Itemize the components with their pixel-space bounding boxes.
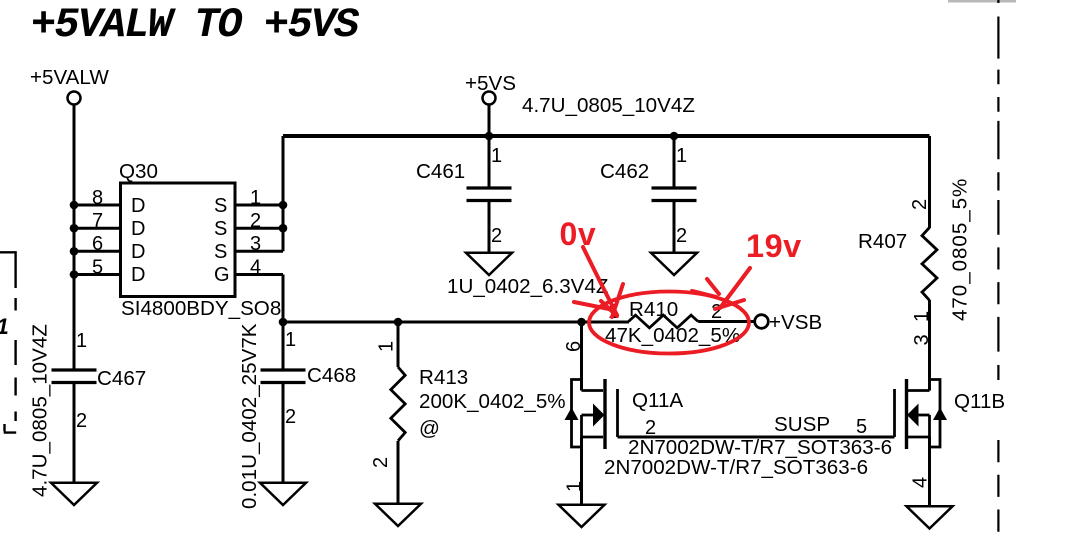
- svg-text:4.7U_0805_10V4Z: 4.7U_0805_10V4Z: [29, 324, 52, 497]
- svg-text:1: 1: [491, 145, 502, 167]
- svg-text:1U_0402_6.3V4Z: 1U_0402_6.3V4Z: [447, 275, 608, 298]
- pin number 2 C467: [76, 410, 87, 432]
- svg-text:+5VALW TO +5VS: +5VALW TO +5VS: [31, 1, 359, 49]
- svg-text:@: @: [419, 417, 440, 440]
- annotation arrow 19v barb: [715, 300, 744, 309]
- pin number 1 C461: [491, 145, 502, 167]
- pin number 5 Q11B gate: [856, 416, 867, 438]
- annotation arrow 0v shaft: [583, 247, 617, 315]
- terminal +5VALW: [68, 92, 81, 105]
- svg-text:2N7002DW-T/R7_SOT363-6: 2N7002DW-T/R7_SOT363-6: [604, 456, 868, 479]
- pin number 2 R410: [711, 301, 722, 323]
- pin name D (pin 6): [131, 241, 145, 263]
- svg-text:Q11A: Q11A: [632, 389, 683, 412]
- junction dot pin 1: [279, 201, 288, 210]
- wire Q11B source to ground: [928, 437, 931, 506]
- refdes Q11A: [632, 389, 683, 412]
- pin number 4 Q11B source (rotated): [910, 477, 932, 488]
- annotation 19v cross stroke: [707, 279, 719, 294]
- pin number 2: [250, 210, 261, 232]
- refdes R410: [629, 298, 678, 321]
- value label 1U_0402_6.3V4Z (C462): [447, 275, 608, 298]
- terminal +5VS: [483, 92, 496, 105]
- svg-text:7: 7: [92, 210, 103, 232]
- wire Q11A source to ground: [580, 437, 583, 504]
- pin name D (pin 8): [131, 195, 145, 217]
- svg-text:C461: C461: [416, 160, 465, 183]
- svg-text:C468: C468: [307, 364, 356, 387]
- svg-text:1: 1: [376, 341, 398, 352]
- svg-text:D: D: [131, 264, 145, 286]
- pin number 5: [92, 257, 103, 279]
- capacitor C461: [467, 136, 512, 252]
- junction dot pin 6: [70, 247, 79, 256]
- wire R410 to +VSB: [698, 320, 754, 323]
- wire +5VS bus horizontal: [283, 134, 930, 138]
- pin name D (pin 5): [131, 264, 145, 286]
- svg-text:2: 2: [76, 410, 87, 432]
- svg-text:6: 6: [563, 341, 585, 352]
- annotation arrow 0v barb left: [601, 301, 617, 316]
- annotation 0v text: [560, 216, 597, 252]
- svg-text:2: 2: [285, 406, 296, 428]
- refdes Q11B: [954, 390, 1005, 413]
- svg-text:SUSP: SUSP: [774, 413, 830, 436]
- transistor Q11B (2N7002DW half B): [895, 379, 948, 449]
- wire R407 to Q11B drain: [928, 300, 931, 391]
- capacitor C468: [261, 370, 306, 482]
- svg-text:2: 2: [491, 225, 502, 247]
- svg-text:+VSB: +VSB: [769, 311, 822, 334]
- annotation arrow 0v barb right: [612, 284, 623, 317]
- pin number 2 C462: [676, 225, 687, 247]
- svg-text:2: 2: [909, 199, 931, 210]
- wire vertical S-pins to +5VS bus: [282, 136, 285, 251]
- wire Q30 pin 2: [235, 227, 283, 230]
- svg-text:C462: C462: [600, 160, 649, 183]
- junction dot gate net at C468: [279, 318, 288, 327]
- junction dot bus at C462: [670, 132, 679, 141]
- value label 0.01U_0402_25V7K (rotated): [238, 323, 261, 509]
- ground C467: [51, 483, 97, 505]
- pin number 3: [250, 233, 261, 255]
- svg-text:5: 5: [856, 416, 867, 438]
- wire vertical G pin down to gate net: [282, 275, 285, 323]
- wire Q30 pin 7: [74, 227, 120, 230]
- wire Q30 pin 6: [74, 250, 120, 253]
- svg-text:0v: 0v: [560, 216, 597, 252]
- svg-text:C467: C467: [97, 367, 146, 390]
- svg-text:+5VALW: +5VALW: [30, 66, 109, 89]
- ground C462: [651, 253, 697, 275]
- refdes R413: [419, 366, 468, 389]
- pin name S (pin 1): [214, 195, 227, 217]
- junction dot pin 8: [70, 201, 79, 210]
- frame gray tick top right: [948, 0, 1016, 3]
- title +5VALW TO +5VS: [31, 1, 359, 49]
- svg-text:R413: R413: [419, 366, 468, 389]
- wire R413 bottom: [397, 441, 400, 503]
- value label 47K_0402_5%: [605, 324, 740, 347]
- transistor Q30 body SI4800BDY_SO8: [121, 183, 236, 297]
- resistor R407: [922, 228, 937, 301]
- svg-text:8: 8: [92, 187, 103, 209]
- wire Q30 pin 3: [235, 250, 283, 253]
- pin name S (pin 3): [214, 241, 227, 263]
- svg-text:1: 1: [564, 481, 586, 492]
- svg-text:D: D: [131, 195, 145, 217]
- pin number 3 Q11B drain (rotated): [911, 334, 933, 345]
- part value 2N7002DW-T/R7_SOT363-6 (Q11A): [628, 436, 892, 459]
- svg-text:47K_0402_5%: 47K_0402_5%: [605, 324, 740, 347]
- pin number 1: [250, 187, 261, 209]
- junction dot bus at +5VS: [485, 132, 494, 141]
- pin number 2 C468: [285, 406, 296, 428]
- wire gate net horizontal (Q30.G / R413 / C468 / R410.1 / Q11A drain): [283, 321, 629, 324]
- pin number 8: [92, 187, 103, 209]
- wire +5VALW vertical to C467: [73, 105, 76, 369]
- svg-text:470_0805_5%: 470_0805_5%: [949, 178, 972, 321]
- refdes C468: [307, 364, 356, 387]
- pin number 6: [92, 233, 103, 255]
- svg-text:D: D: [131, 241, 145, 263]
- svg-text:200K_0402_5%: 200K_0402_5%: [419, 390, 566, 413]
- ground R413: [375, 504, 421, 526]
- value label 4.7U_0805_10V4Z (C467, rotated): [29, 324, 52, 497]
- pin name G (pin 4): [214, 264, 230, 286]
- svg-text:1: 1: [0, 314, 9, 339]
- transistor Q11A (2N7002DW half A): [565, 379, 618, 449]
- wire SUSP gate net: [618, 436, 895, 439]
- value label 200K_0402_5%: [419, 390, 566, 413]
- svg-text:G: G: [214, 264, 230, 286]
- pin number 1 C467: [76, 330, 87, 352]
- svg-text:4.7U_0805_10V4Z: 4.7U_0805_10V4Z: [522, 94, 695, 117]
- ground Q11A: [559, 505, 605, 527]
- svg-text:SI4800BDY_SO8: SI4800BDY_SO8: [121, 297, 281, 320]
- net label SUSP: [774, 413, 830, 436]
- pin number 1 R407 (rotated): [911, 311, 933, 322]
- svg-text:S: S: [214, 241, 227, 263]
- value label 470_0805_5% (rotated): [949, 178, 972, 321]
- ground C468: [260, 483, 306, 505]
- junction dot pin 7: [70, 224, 79, 233]
- wire R413 top: [397, 322, 400, 367]
- junction dot pin 5: [70, 270, 79, 279]
- pin number 2 C461: [491, 225, 502, 247]
- part value 2N7002DW-T/R7_SOT363-6 (Q11B): [604, 456, 868, 479]
- svg-text:0.01U_0402_25V7K: 0.01U_0402_25V7K: [238, 323, 261, 509]
- pin number 1 R410: [608, 301, 619, 323]
- pin number 1 Q11A source (rotated): [564, 481, 586, 492]
- refdes C467: [97, 367, 146, 390]
- annotation 0v cross stroke: [574, 302, 614, 310]
- wire bus right corner down to R407: [928, 136, 931, 228]
- wire C468 top: [282, 322, 285, 369]
- svg-text:3: 3: [911, 334, 933, 345]
- svg-text:Q11B: Q11B: [954, 390, 1005, 413]
- junction dot pin 2: [279, 224, 288, 233]
- pin number 2 R413 (rotated): [370, 457, 392, 468]
- value label @: [419, 417, 440, 440]
- svg-text:1: 1: [76, 330, 87, 352]
- svg-text:D: D: [131, 218, 145, 240]
- part value SI4800BDY_SO8: [121, 297, 281, 320]
- node +5VALW label: [30, 66, 109, 89]
- svg-text:2: 2: [370, 457, 392, 468]
- terminal +VSB: [755, 315, 769, 329]
- annotation red ellipse around R410: [589, 292, 749, 354]
- capacitor C467: [52, 369, 97, 483]
- pin number 4: [250, 257, 261, 279]
- zone label 1: [0, 314, 9, 339]
- wire Q30 pin 1: [235, 204, 283, 207]
- pin number 1 R413 (rotated): [376, 341, 398, 352]
- refdes Q30: [119, 160, 158, 183]
- svg-text:1: 1: [676, 145, 687, 167]
- ground Q11B: [907, 506, 953, 528]
- svg-text:5: 5: [92, 257, 103, 279]
- ground C461: [466, 253, 512, 275]
- svg-text:4: 4: [910, 477, 932, 488]
- refdes C461: [416, 160, 465, 183]
- junction dot gate net at R413: [394, 318, 403, 327]
- pin number 1 C462: [676, 145, 687, 167]
- frame zone corner left: [0, 252, 16, 432]
- annotation 19v text: [746, 228, 802, 264]
- svg-text:S: S: [214, 195, 227, 217]
- svg-text:Q30: Q30: [119, 160, 158, 183]
- refdes R407: [858, 230, 907, 253]
- node +VSB label: [769, 311, 822, 334]
- wire Q30 pin 4: [235, 273, 283, 276]
- pin number 6 Q11A drain (rotated): [563, 341, 585, 352]
- resistor R413: [391, 367, 405, 441]
- wire Q11A drain vertical: [580, 322, 583, 391]
- frame dashed right border: [997, 0, 999, 532]
- pin name D (pin 7): [131, 218, 145, 240]
- svg-text:6: 6: [92, 233, 103, 255]
- wire +5VS drop to bus: [488, 105, 491, 137]
- junction dot gate net at Q11A drain: [577, 318, 586, 327]
- pin number 2 R407 (rotated): [909, 199, 931, 210]
- refdes C462: [600, 160, 649, 183]
- pin number 1 C468: [285, 329, 296, 351]
- wire Q30 pin 5: [74, 273, 120, 276]
- value label 4.7U_0805_10V4Z (C461): [522, 94, 695, 117]
- wire Q30 pin 8: [74, 204, 120, 207]
- pin number 2 Q11A gate: [645, 417, 656, 439]
- svg-text:2: 2: [676, 225, 687, 247]
- pin number 7: [92, 210, 103, 232]
- svg-text:S: S: [214, 218, 227, 240]
- pin name S (pin 2): [214, 218, 227, 240]
- svg-text:1: 1: [285, 329, 296, 351]
- svg-text:19v: 19v: [746, 228, 802, 264]
- annotation arrow 19v shaft: [720, 268, 750, 308]
- resistor R410: [629, 315, 699, 328]
- capacitor C462: [652, 136, 697, 252]
- svg-text:R407: R407: [858, 230, 907, 253]
- node +5VS label: [465, 72, 516, 95]
- annotation 19v horizontal stroke: [692, 291, 716, 297]
